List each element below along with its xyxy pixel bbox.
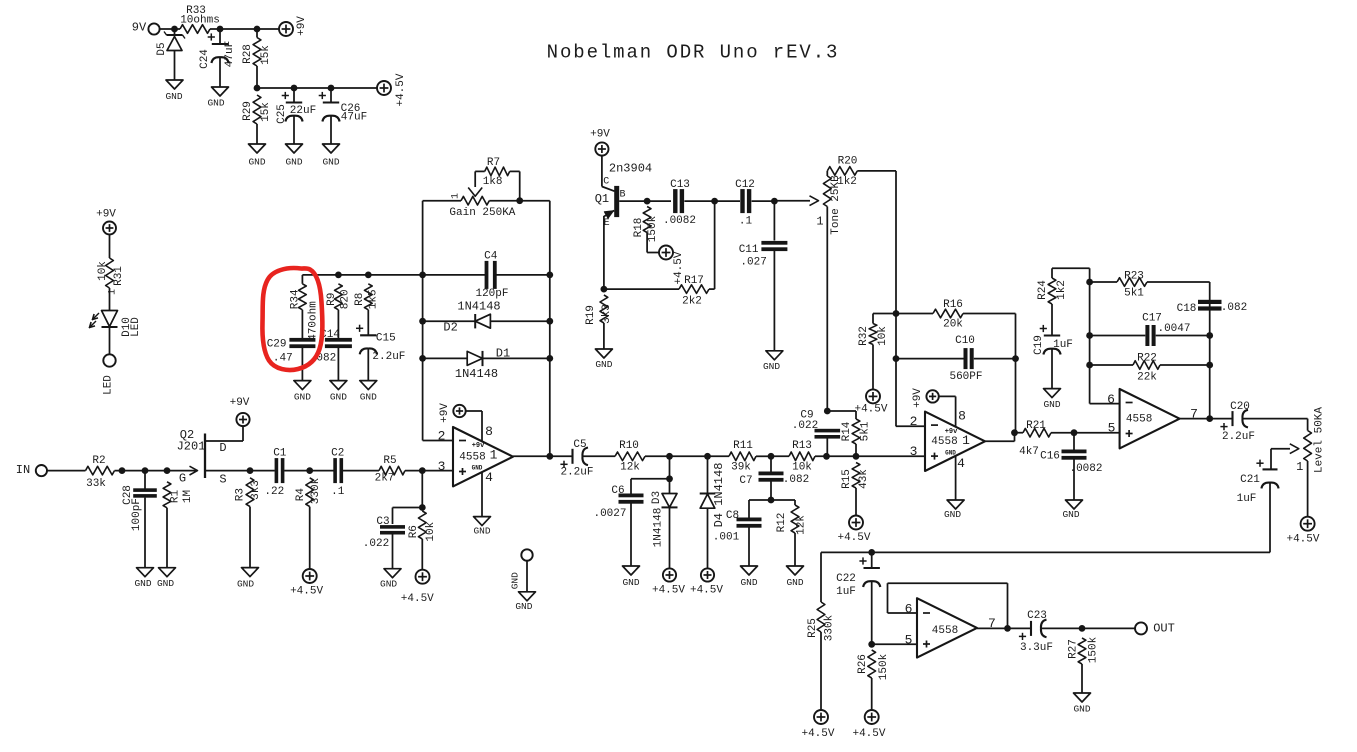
- svg-text:1uF: 1uF: [836, 586, 856, 598]
- svg-text:R17: R17: [684, 275, 704, 287]
- svg-text:1: 1: [451, 193, 462, 199]
- svg-text:R8: R8: [354, 293, 366, 306]
- svg-text:GND: GND: [322, 157, 339, 168]
- svg-text:+9V: +9V: [590, 128, 610, 140]
- svg-text:2k7: 2k7: [375, 473, 395, 485]
- svg-text:3: 3: [910, 444, 918, 459]
- svg-text:R16: R16: [943, 299, 963, 311]
- svg-text:150k: 150k: [647, 215, 659, 242]
- svg-text:R3: R3: [235, 488, 247, 501]
- svg-text:GND: GND: [380, 579, 397, 590]
- svg-text:3: 3: [438, 459, 446, 474]
- svg-text:R12: R12: [776, 513, 788, 533]
- svg-text:10k: 10k: [792, 461, 812, 473]
- svg-text:22k: 22k: [1137, 371, 1157, 383]
- svg-text:3.3uF: 3.3uF: [1020, 642, 1053, 654]
- svg-text:10k: 10k: [877, 326, 889, 346]
- svg-text:Q1: Q1: [595, 192, 609, 206]
- svg-text:20k: 20k: [943, 318, 963, 330]
- svg-text:1k2: 1k2: [1056, 280, 1068, 300]
- svg-text:1: 1: [1296, 460, 1303, 474]
- svg-text:GND: GND: [473, 526, 490, 537]
- svg-text:D5: D5: [156, 42, 168, 55]
- svg-text:3k3: 3k3: [601, 304, 613, 324]
- svg-text:39k: 39k: [731, 461, 751, 473]
- svg-text:GND: GND: [740, 577, 757, 588]
- svg-text:D4 1N4148: D4 1N4148: [712, 463, 726, 528]
- svg-text:IN: IN: [16, 463, 30, 477]
- svg-text:1k2: 1k2: [837, 176, 857, 188]
- svg-text:C12: C12: [735, 179, 755, 191]
- svg-text:4: 4: [485, 470, 493, 485]
- svg-text:GND: GND: [509, 572, 520, 589]
- svg-text:12k: 12k: [795, 515, 807, 535]
- svg-text:C6: C6: [611, 485, 624, 497]
- svg-text:GND: GND: [237, 579, 254, 590]
- svg-text:+4.5V: +4.5V: [852, 728, 885, 740]
- svg-text:R4: R4: [295, 488, 307, 502]
- svg-text:GND: GND: [622, 577, 639, 588]
- svg-text:Nobelman ODR Uno rEV.3: Nobelman ODR Uno rEV.3: [547, 42, 840, 64]
- svg-text:120pF: 120pF: [475, 288, 508, 300]
- svg-text:2.2uF: 2.2uF: [560, 466, 593, 478]
- svg-text:47uF: 47uF: [224, 41, 236, 67]
- svg-text:2n3904: 2n3904: [609, 162, 652, 176]
- svg-text:5: 5: [905, 632, 913, 647]
- svg-text:4558: 4558: [1126, 413, 1152, 425]
- svg-text:2k2: 2k2: [682, 295, 702, 307]
- svg-text:C3: C3: [376, 516, 389, 528]
- svg-text:GND: GND: [1043, 399, 1060, 410]
- svg-text:2: 2: [910, 414, 918, 429]
- svg-text:R28: R28: [242, 44, 254, 64]
- svg-text:R15: R15: [841, 469, 853, 489]
- svg-text:+4.5V: +4.5V: [290, 585, 323, 597]
- svg-text:GND: GND: [944, 509, 961, 520]
- svg-text:C5: C5: [573, 439, 586, 451]
- svg-text:R14: R14: [841, 421, 853, 441]
- svg-text:.1: .1: [331, 486, 345, 498]
- svg-text:D: D: [219, 441, 226, 455]
- svg-text:10k: 10k: [425, 521, 437, 541]
- svg-text:8: 8: [485, 424, 493, 439]
- svg-text:C22: C22: [836, 573, 856, 585]
- svg-text:C15: C15: [376, 332, 396, 344]
- svg-text:C19: C19: [1033, 335, 1045, 355]
- svg-text:C23: C23: [1027, 610, 1047, 622]
- svg-text:150k: 150k: [878, 653, 890, 680]
- svg-text:D3: D3: [651, 491, 663, 504]
- svg-text:GND: GND: [248, 157, 265, 168]
- svg-text:R20: R20: [838, 155, 858, 167]
- svg-text:4k7: 4k7: [1019, 446, 1039, 458]
- svg-text:R19: R19: [585, 305, 597, 325]
- svg-text:47uF: 47uF: [341, 111, 367, 123]
- svg-text:150k: 150k: [1087, 636, 1099, 663]
- svg-text:+9V: +9V: [230, 397, 250, 409]
- svg-text:6: 6: [1107, 392, 1115, 407]
- svg-text:R5: R5: [383, 455, 396, 467]
- svg-text:C7: C7: [739, 475, 752, 487]
- svg-text:1uF: 1uF: [1237, 493, 1257, 505]
- svg-text:C4: C4: [484, 250, 498, 262]
- svg-text:C29: C29: [267, 339, 287, 351]
- svg-text:R25: R25: [807, 618, 819, 638]
- svg-text:S: S: [219, 473, 226, 487]
- svg-text:+4.5V: +4.5V: [401, 593, 434, 605]
- svg-text:R10: R10: [619, 440, 639, 452]
- svg-text:1M: 1M: [182, 490, 194, 503]
- svg-text:GND: GND: [595, 359, 612, 370]
- svg-text:R29: R29: [242, 101, 254, 121]
- svg-text:R24: R24: [1037, 280, 1049, 300]
- svg-text:33k: 33k: [86, 478, 106, 490]
- svg-text:10k: 10k: [97, 261, 109, 281]
- svg-text:LED: LED: [130, 317, 142, 337]
- svg-text:GND: GND: [763, 361, 780, 372]
- svg-text:OUT: OUT: [1153, 622, 1175, 636]
- svg-text:GND: GND: [472, 465, 483, 472]
- svg-text:GND: GND: [360, 392, 377, 403]
- svg-text:+9V: +9V: [912, 388, 924, 408]
- svg-text:+4.5V: +4.5V: [801, 728, 834, 740]
- svg-text:15k: 15k: [260, 45, 272, 65]
- svg-text:15k: 15k: [260, 102, 272, 122]
- svg-text:GND: GND: [165, 91, 182, 102]
- svg-text:R2: R2: [92, 455, 105, 467]
- svg-text:R23: R23: [1124, 270, 1144, 282]
- svg-text:.22: .22: [264, 486, 284, 498]
- svg-text:2: 2: [438, 428, 446, 443]
- svg-text:43k: 43k: [858, 469, 870, 489]
- svg-text:1: 1: [490, 447, 498, 462]
- svg-text:1k8: 1k8: [483, 176, 503, 188]
- svg-text:.027: .027: [740, 256, 766, 268]
- svg-text:1N4148: 1N4148: [455, 367, 498, 381]
- svg-text:R1: R1: [170, 490, 182, 504]
- svg-text:.082: .082: [1221, 302, 1247, 314]
- svg-text:10ohms: 10ohms: [180, 14, 220, 26]
- svg-text:R6: R6: [408, 525, 420, 538]
- svg-text:.001: .001: [713, 531, 740, 543]
- svg-text:1: 1: [816, 214, 823, 228]
- svg-text:GND: GND: [786, 577, 803, 588]
- svg-text:R26: R26: [857, 654, 869, 674]
- svg-text:GND: GND: [330, 392, 347, 403]
- svg-text:J201: J201: [177, 440, 206, 454]
- svg-text:4558: 4558: [459, 451, 485, 463]
- svg-text:4558: 4558: [932, 625, 958, 637]
- svg-text:+9V: +9V: [296, 16, 308, 36]
- svg-text:C: C: [603, 177, 609, 188]
- svg-text:1N4148: 1N4148: [457, 299, 500, 313]
- svg-text:GND: GND: [1073, 704, 1090, 715]
- svg-text:C21: C21: [1240, 474, 1260, 486]
- svg-text:GND: GND: [515, 601, 532, 612]
- svg-text:R9: R9: [326, 293, 338, 306]
- svg-text:22uF: 22uF: [290, 105, 316, 117]
- svg-text:.022: .022: [363, 538, 389, 550]
- svg-text:C18: C18: [1177, 303, 1197, 315]
- svg-text:9V: 9V: [132, 21, 147, 35]
- svg-text:.082: .082: [783, 474, 809, 486]
- svg-text:GND: GND: [134, 578, 151, 589]
- svg-text:Level 50KA: Level 50KA: [1313, 407, 1325, 473]
- svg-text:R13: R13: [792, 440, 812, 452]
- svg-text:+4.5V: +4.5V: [652, 584, 685, 596]
- svg-text:2.2uF: 2.2uF: [1222, 431, 1255, 443]
- svg-text:.47: .47: [273, 352, 293, 364]
- svg-text:12k: 12k: [620, 461, 640, 473]
- svg-text:100pF: 100pF: [131, 498, 143, 531]
- svg-text:C1: C1: [273, 448, 287, 460]
- svg-text:8: 8: [958, 408, 966, 423]
- svg-text:1: 1: [962, 433, 970, 448]
- svg-text:+4.5V: +4.5V: [690, 584, 723, 596]
- svg-text:R22: R22: [1137, 352, 1157, 364]
- svg-text:GND: GND: [285, 157, 302, 168]
- svg-text:Gain 250KA: Gain 250KA: [449, 207, 515, 219]
- svg-text:4558: 4558: [931, 436, 957, 448]
- svg-text:GND: GND: [207, 98, 224, 109]
- svg-text:C24: C24: [199, 49, 211, 69]
- svg-text:+4.5V: +4.5V: [837, 532, 870, 544]
- svg-text:+4.5V: +4.5V: [1286, 533, 1319, 545]
- svg-text:R32: R32: [858, 326, 870, 346]
- svg-text:820: 820: [340, 289, 352, 309]
- svg-text:G: G: [179, 472, 186, 486]
- svg-text:R21: R21: [1026, 420, 1046, 432]
- svg-text:1N4148: 1N4148: [652, 508, 664, 548]
- svg-text:470ohm: 470ohm: [308, 301, 320, 341]
- svg-text:LED: LED: [102, 375, 114, 395]
- svg-text:4: 4: [957, 456, 965, 471]
- svg-text:R31: R31: [113, 266, 125, 286]
- svg-text:3k3: 3k3: [250, 480, 262, 500]
- svg-text:C2: C2: [331, 448, 344, 460]
- svg-text:1k5: 1k5: [367, 289, 379, 309]
- svg-text:B: B: [619, 190, 625, 201]
- svg-text:6: 6: [905, 601, 913, 616]
- svg-text:.0027: .0027: [593, 508, 626, 520]
- svg-text:C13: C13: [670, 179, 690, 191]
- svg-text:D1: D1: [496, 347, 510, 361]
- svg-text:C16: C16: [1040, 451, 1060, 463]
- svg-text:C11: C11: [739, 244, 759, 256]
- svg-text:R27: R27: [1068, 639, 1080, 659]
- svg-text:2.2uF: 2.2uF: [372, 351, 405, 363]
- svg-text:GND: GND: [157, 578, 174, 589]
- svg-text:330k: 330k: [310, 477, 322, 504]
- svg-text:.022: .022: [792, 420, 818, 432]
- svg-text:R34: R34: [290, 289, 302, 309]
- svg-text:1uF: 1uF: [1053, 339, 1073, 351]
- svg-text:C10: C10: [955, 335, 975, 347]
- svg-text:5k1: 5k1: [859, 421, 871, 441]
- svg-text:GND: GND: [945, 450, 956, 457]
- svg-text:.1: .1: [739, 216, 753, 228]
- svg-text:+4.5V: +4.5V: [673, 251, 685, 284]
- svg-text:5: 5: [1108, 420, 1116, 435]
- svg-text:+9V: +9V: [439, 403, 451, 423]
- svg-text:560PF: 560PF: [949, 371, 982, 383]
- svg-text:C25: C25: [276, 104, 288, 124]
- svg-text:R7: R7: [487, 157, 500, 169]
- svg-text:+9v: +9v: [945, 428, 958, 436]
- svg-text:+4.5V: +4.5V: [395, 73, 407, 106]
- svg-text:.0047: .0047: [1157, 323, 1190, 335]
- svg-text:GND: GND: [294, 392, 311, 403]
- svg-text:GND: GND: [1062, 509, 1079, 520]
- svg-text:5k1: 5k1: [1124, 287, 1144, 299]
- svg-text:+9V: +9V: [96, 209, 116, 221]
- svg-text:R11: R11: [733, 440, 753, 452]
- svg-text:.0082: .0082: [663, 215, 696, 227]
- svg-text:+9v: +9v: [472, 442, 485, 450]
- svg-text:330k: 330k: [823, 614, 835, 641]
- svg-text:C20: C20: [1230, 401, 1250, 413]
- svg-text:C8: C8: [726, 510, 739, 522]
- svg-text:.0082: .0082: [1069, 463, 1102, 475]
- svg-text:R18: R18: [633, 218, 645, 238]
- svg-text:D2: D2: [443, 321, 457, 335]
- svg-text:+4.5V: +4.5V: [854, 403, 887, 415]
